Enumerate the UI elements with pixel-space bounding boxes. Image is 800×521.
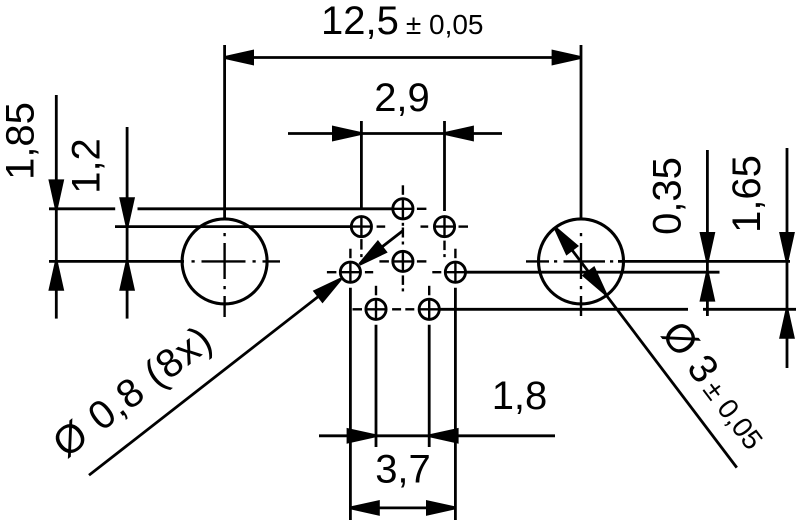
dimension 0,35: dimension line [706,150,709,316]
H4 horizontal center line [379,260,426,262]
dimension 2,9: dimension line [288,132,502,135]
extension line below H5 (x=350.4) [349,288,352,520]
hole H2 (Ø0.8) [351,217,371,237]
extension line hole row 2/3 (y=226.6) [115,225,351,228]
dimension 3,7: left arrow [350,502,378,514]
extension line hole row 7/8 right (y=309.3) [439,308,688,311]
dimension 12,5: left extension line [223,45,226,219]
dimension 12,5: left arrow [225,51,253,63]
hole H5 (Ø0.8) [340,262,360,282]
left hole vertical center line [223,233,225,317]
dimension 2,9: right arrow [445,127,473,139]
right mounting hole (Ø3) [539,219,624,304]
H5 cross center lines [327,249,361,283]
dimension 2,9: left arrow [333,127,361,139]
extension line hole row 7/8 right part 2 [703,308,796,311]
svg-text:1,8: 1,8 [492,374,548,418]
svg-text:Ø 3± 0,05: Ø 3± 0,05 [653,313,777,457]
svg-text:2,9: 2,9 [374,76,430,120]
leader line Ø0,8: arrow at H5 upper-right [356,242,386,269]
dimension 12,5: dimension line [225,56,581,59]
extension line hole row 1 (y=208.8) right part [138,207,393,210]
dimension 1,85: dimension line middle part [55,209,58,262]
dimension 1,2: upper arrow [121,199,133,227]
H7 cross center lines [353,286,387,320]
dimension 1,2: lower arrow [121,261,133,289]
left hole horizontal center line [192,260,281,262]
extension line center line left (y=261.4) [49,260,184,263]
hole H1 (Ø0.8) [393,199,413,219]
dimension 1,85: dimension line upper part [55,95,58,182]
H1-H4 column center line [402,223,404,292]
svg-text:1,2: 1,2 [65,138,109,194]
svg-text:0,35: 0,35 [646,157,690,235]
svg-text:1,85: 1,85 [0,102,42,180]
H8 cross center lines [419,286,439,320]
H3 cross center lines [435,217,469,258]
H5-H6 row center line [365,271,441,273]
leader line Ø0,8: upper segment [360,231,403,264]
right hole vertical center line [580,233,582,316]
dimension 3,7: right arrow [427,502,455,514]
hole H8 (Ø0.8) [419,299,439,319]
hole H3 (Ø0.8) [434,217,454,237]
dimension 1,2: dimension line lower part [126,289,129,319]
dimension 3,7: dimension line [350,506,455,509]
dimension 12,5: right extension line [580,45,583,219]
svg-text:1,65: 1,65 [725,155,769,233]
hole H6 (Ø0.8) [445,262,465,282]
extension line below H8 (x=429.2) [428,325,431,447]
dimension 1,85: lower arrow [50,261,62,289]
dimension 2,9: right extension line [443,121,446,211]
dimension 1,65: upper arrow [781,233,793,261]
dimension 1,8: dimension line [319,434,555,437]
leader line Ø0,8: lower segment [89,280,340,476]
leader line Ø3: arrow upper-left [550,224,577,254]
dimension 0,35: upper arrow [701,233,713,261]
H2-H3 row center line [421,225,429,227]
dimension 1,85: dimension line lower part [55,289,58,319]
dimension 2,9: left extension line [360,121,363,209]
H1 cross center lines [393,185,427,219]
extension line hole row 1 (y=208.8) left part [49,207,115,210]
svg-text:12,5± 0,05: 12,5± 0,05 [321,0,484,43]
extension line hole row 5/6 right (y=272.2) [466,271,720,274]
dimension 1,85: upper arrow [50,181,62,209]
dimension 0,35: lower arrow [701,272,713,300]
leader line Ø3: arrow lower-right [584,268,611,298]
extension line below H6 (x=455.4) [454,288,457,520]
dimension 1,8: left arrow [348,430,376,442]
dimension 1,2: dimension line middle part [126,227,129,262]
svg-text:3,7: 3,7 [375,448,431,492]
dimension 1,65: lower arrow [781,309,793,337]
dimension 1,2: dimension line upper part [126,127,129,200]
leader line Ø3 [555,227,737,467]
H6 cross center lines [445,249,465,283]
extension line below H7 (x=376) [375,325,378,447]
H2 cross center lines [351,217,385,258]
right hole horizontal center line [526,260,613,262]
extension line center line right (y=261.4) [618,260,790,263]
H7-H8 row center line [392,308,414,310]
hole H7 (Ø0.8) [366,299,386,319]
hole H4 (Ø0.8) [393,251,413,271]
dimension 12,5: right arrow [553,51,581,63]
dimension 1,8: right arrow [429,430,457,442]
leader line Ø0,8: arrow at H5 lower-left [315,274,345,301]
dimension 1,65: dimension line [786,148,789,368]
left mounting hole (Ø3) [182,219,267,304]
